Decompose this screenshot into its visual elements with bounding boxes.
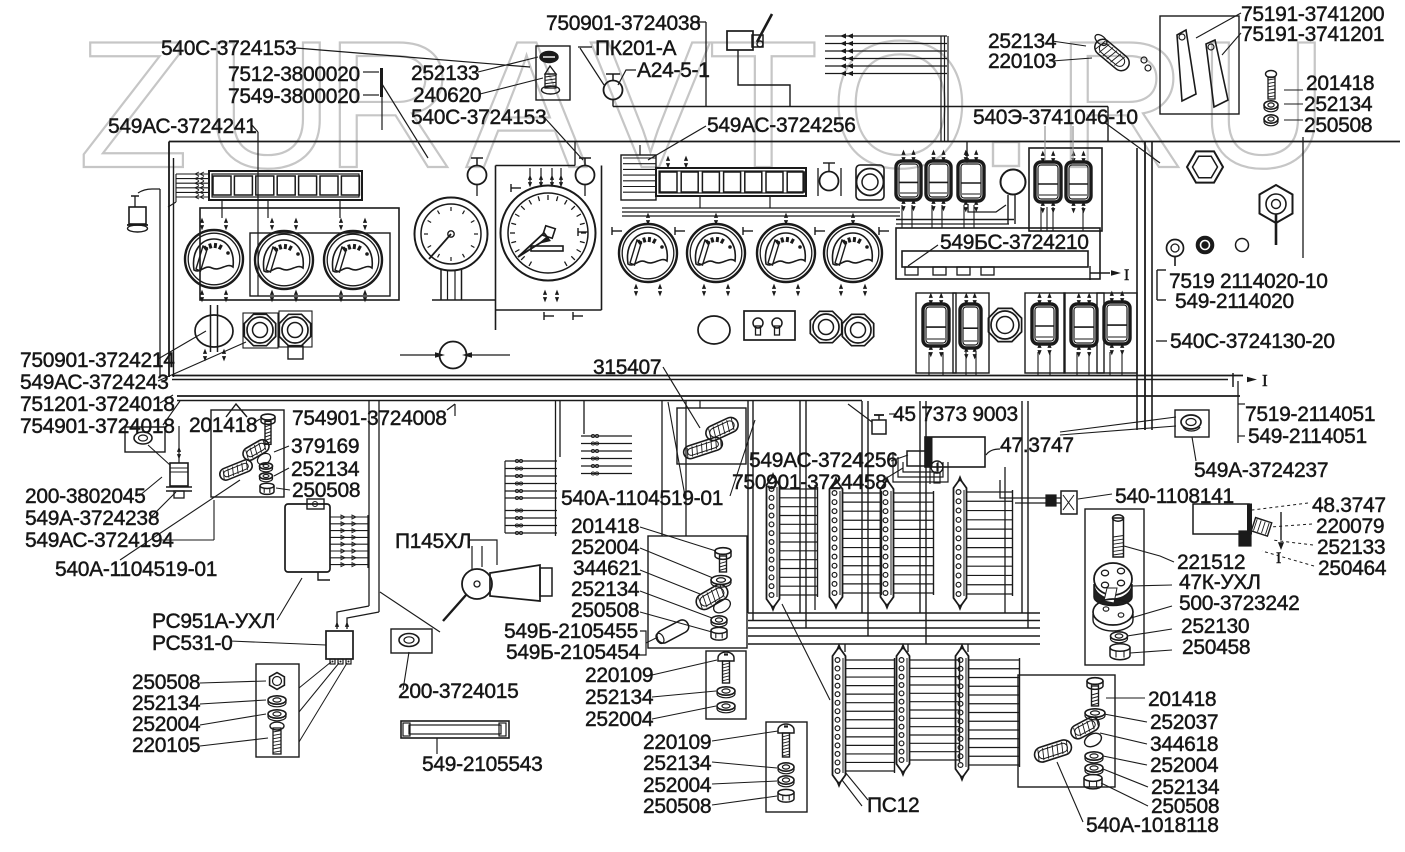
svg-text:540-1108141: 540-1108141 [1115, 485, 1234, 508]
svg-text:379169: 379169 [291, 435, 359, 458]
svg-text:549А-3724237: 549А-3724237 [1194, 459, 1328, 482]
svg-text:201418: 201418 [571, 515, 639, 538]
svg-text:549Б-2105455: 549Б-2105455 [504, 620, 638, 643]
svg-text:540С-3724153: 540С-3724153 [411, 106, 546, 129]
svg-text:220103: 220103 [988, 50, 1056, 73]
svg-text:754901-3724008: 754901-3724008 [292, 407, 447, 430]
svg-text:549-2114020: 549-2114020 [1175, 290, 1294, 313]
svg-text:РС531-0: РС531-0 [152, 632, 233, 655]
svg-text:252037: 252037 [1150, 711, 1218, 734]
svg-text:750901-3724458: 750901-3724458 [732, 471, 887, 494]
svg-text:540А-1018118: 540А-1018118 [1086, 814, 1219, 837]
svg-text:252134: 252134 [585, 686, 654, 709]
svg-text:220109: 220109 [643, 731, 711, 754]
svg-text:200-3724015: 200-3724015 [398, 680, 519, 703]
svg-text:754901-3724018: 754901-3724018 [20, 415, 175, 438]
svg-text:200-3802045: 200-3802045 [25, 485, 146, 508]
svg-text:ПС12: ПС12 [867, 794, 919, 817]
svg-text:250508: 250508 [1304, 114, 1372, 137]
svg-text:549А-3724238: 549А-3724238 [25, 507, 159, 530]
svg-text:540А-1104519-01: 540А-1104519-01 [55, 558, 217, 581]
svg-text:250508: 250508 [132, 671, 200, 694]
svg-text:549БС-3724210: 549БС-3724210 [940, 231, 1089, 254]
svg-text:751201-3724018: 751201-3724018 [20, 393, 175, 416]
svg-text:250458: 250458 [1182, 636, 1250, 659]
svg-text:I: I [1276, 550, 1281, 567]
svg-text:47К-УХЛ: 47К-УХЛ [1179, 571, 1261, 594]
svg-text:549АС-3724256: 549АС-3724256 [707, 114, 856, 137]
svg-text:45 7373 9003: 45 7373 9003 [893, 403, 1018, 426]
svg-text:549АС-3724256: 549АС-3724256 [749, 449, 898, 472]
svg-text:240620: 240620 [413, 84, 481, 107]
svg-text:201418: 201418 [1306, 72, 1374, 95]
svg-text:540С-3724153: 540С-3724153 [161, 37, 296, 60]
svg-text:250508: 250508 [571, 599, 639, 622]
svg-text:ПК201-А: ПК201-А [595, 37, 677, 60]
svg-text:А24-5-1: А24-5-1 [637, 59, 710, 82]
svg-text:252004: 252004 [643, 774, 712, 797]
svg-text:549-2114051: 549-2114051 [1248, 425, 1367, 448]
svg-text:252134: 252134 [571, 578, 640, 601]
svg-text:I: I [1262, 371, 1268, 390]
svg-text:252134: 252134 [291, 458, 360, 481]
svg-text:47.3747: 47.3747 [1000, 434, 1074, 457]
svg-text:315407: 315407 [593, 356, 661, 379]
svg-text:П145ХЛ: П145ХЛ [395, 530, 471, 553]
svg-text:201418: 201418 [1148, 688, 1216, 711]
svg-text:РС951А-УХЛ: РС951А-УХЛ [152, 610, 275, 633]
svg-text:220079: 220079 [1316, 515, 1384, 538]
svg-text:252004: 252004 [1150, 754, 1219, 777]
svg-text:500-3723242: 500-3723242 [1179, 592, 1300, 615]
svg-text:220105: 220105 [132, 734, 200, 757]
svg-text:252004: 252004 [571, 536, 640, 559]
svg-text:252004: 252004 [132, 713, 201, 736]
svg-text:252133: 252133 [411, 62, 479, 85]
svg-text:252004: 252004 [585, 708, 654, 731]
svg-text:7512-3800020: 7512-3800020 [228, 63, 360, 86]
svg-text:250508: 250508 [292, 479, 360, 502]
svg-text:540С-3724130-20: 540С-3724130-20 [1170, 330, 1335, 353]
svg-text:220109: 220109 [585, 664, 653, 687]
svg-text:I: I [1124, 267, 1129, 284]
svg-text:252133: 252133 [1317, 536, 1385, 559]
svg-text:344621: 344621 [573, 557, 641, 580]
svg-text:750901-3724038: 750901-3724038 [546, 12, 701, 35]
svg-text:252134: 252134 [643, 752, 712, 775]
svg-text:48.3747: 48.3747 [1312, 494, 1386, 517]
svg-text:252134: 252134 [132, 692, 201, 715]
svg-text:549АС-3724194: 549АС-3724194 [25, 529, 174, 552]
svg-text:7519-2114051: 7519-2114051 [1245, 403, 1375, 426]
svg-text:549АС-3724243: 549АС-3724243 [20, 371, 169, 394]
svg-text:7549-3800020: 7549-3800020 [228, 85, 360, 108]
svg-text:201418: 201418 [189, 414, 257, 437]
svg-text:549Б-2105454: 549Б-2105454 [506, 641, 641, 664]
svg-text:549-2105543: 549-2105543 [422, 753, 543, 776]
svg-text:250508: 250508 [643, 795, 711, 818]
svg-text:75191-3741201: 75191-3741201 [1241, 23, 1384, 46]
svg-text:250464: 250464 [1318, 557, 1387, 580]
svg-text:252134: 252134 [1304, 93, 1373, 116]
svg-text:540А-1104519-01: 540А-1104519-01 [561, 487, 723, 510]
svg-text:344618: 344618 [1150, 733, 1218, 756]
svg-text:540Э-3741046-10: 540Э-3741046-10 [973, 106, 1138, 129]
svg-text:252130: 252130 [1181, 615, 1249, 638]
svg-text:549АС-3724241: 549АС-3724241 [108, 115, 257, 138]
svg-text:750901-3724214: 750901-3724214 [20, 349, 175, 372]
